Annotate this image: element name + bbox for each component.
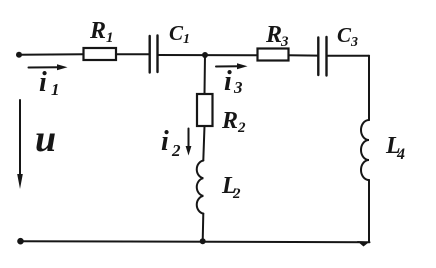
svg-text:3: 3 — [233, 78, 243, 97]
svg-text:2: 2 — [232, 186, 241, 202]
svg-text:1: 1 — [106, 30, 114, 46]
svg-text:C: C — [169, 21, 184, 45]
svg-text:1: 1 — [51, 80, 60, 99]
svg-text:4: 4 — [396, 146, 405, 163]
svg-text:R: R — [221, 108, 238, 134]
svg-text:u: u — [35, 118, 56, 160]
svg-text:R: R — [89, 18, 106, 44]
svg-text:2: 2 — [237, 120, 246, 136]
svg-text:1: 1 — [183, 32, 190, 47]
svg-text:3: 3 — [280, 34, 289, 50]
svg-text:i: i — [161, 126, 169, 157]
svg-text:i: i — [224, 66, 232, 97]
svg-text:i: i — [39, 67, 47, 98]
svg-text:C: C — [337, 23, 352, 47]
svg-text:2: 2 — [171, 141, 181, 160]
svg-text:3: 3 — [350, 35, 358, 50]
svg-text:R: R — [265, 22, 282, 48]
